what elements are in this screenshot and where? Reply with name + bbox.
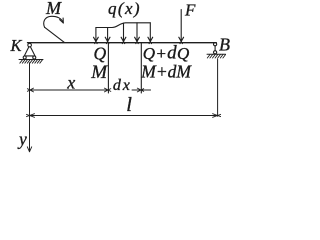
support K roller left: [23, 56, 26, 59]
support K triangle: [24, 47, 35, 56]
svg-text:l: l: [126, 94, 132, 116]
support K pin circle: [28, 43, 32, 47]
moment arrowhead: [60, 18, 64, 23]
section cut line 2: [140, 43, 142, 93]
load arrow 2: [105, 28, 110, 44]
support B hatching: [207, 55, 225, 59]
svg-text:Q: Q: [94, 44, 107, 64]
y axis line: [29, 63, 31, 152]
svg-text:F: F: [184, 1, 196, 20]
svg-text:x: x: [66, 72, 75, 92]
x dimension left arrowhead: [27, 88, 33, 92]
svg-text:q(x): q(x): [108, 0, 141, 18]
force F arrow: [179, 10, 184, 44]
section cut line 1: [107, 43, 109, 93]
load arrow 5: [148, 23, 153, 44]
x dimension right arrowhead: [104, 88, 110, 92]
beam axis line: [28, 42, 217, 44]
svg-text:M: M: [45, 0, 62, 18]
support B bottom hinge circle: [214, 51, 217, 54]
svg-text:K: K: [10, 36, 23, 55]
load arrow 4: [135, 23, 140, 44]
moment arrow slant line: [45, 27, 64, 42]
x dimension line: [30, 89, 109, 91]
l dimension line: [30, 115, 218, 117]
l dimension left arrowhead: [27, 114, 35, 118]
support K ground line: [19, 59, 43, 61]
svg-text:y: y: [17, 129, 27, 149]
svg-text:Q+dQ: Q+dQ: [143, 42, 190, 63]
support K hatching: [20, 60, 43, 64]
svg-text:B: B: [219, 35, 230, 55]
svg-text:M: M: [90, 62, 108, 83]
svg-text:M+dM: M+dM: [140, 61, 192, 81]
moment arrow arc: [44, 16, 64, 27]
dx dimension right arrow with tail: [132, 88, 151, 92]
load arrow 3: [121, 23, 126, 44]
support K roller right: [33, 56, 36, 59]
svg-text:dx: dx: [113, 77, 132, 94]
right extension line: [217, 59, 219, 116]
support B link: [214, 46, 216, 51]
support B top hinge circle: [214, 43, 217, 46]
load arrow 1: [94, 28, 99, 44]
l dimension right arrowhead: [213, 114, 221, 118]
y axis arrowhead: [27, 147, 31, 152]
distributed load intensity curve: [96, 23, 150, 28]
support B ground line: [207, 53, 226, 55]
